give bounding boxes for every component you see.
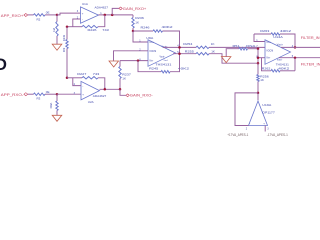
svg-text:U2A: U2A <box>88 100 94 104</box>
wire R262 right leg <box>294 58 296 71</box>
wire R237 top <box>119 61 121 67</box>
wire node E down chain <box>257 49 259 64</box>
off-page connector APP_RXO+ <box>24 14 28 17</box>
wire node F down to R5 <box>56 94 58 101</box>
wire to GAIN_RXO+ connector <box>112 8 119 15</box>
resistor R263 <box>271 33 280 35</box>
svg-text:-: - <box>82 17 83 21</box>
resistor R3 <box>34 93 46 96</box>
svg-text:GAIN_RXO+: GAIN_RXO+ <box>123 7 147 11</box>
svg-text:DNA: DNA <box>246 44 255 48</box>
wire R263 left leg to pin1 <box>254 34 265 42</box>
svg-text:1K: 1K <box>211 50 215 54</box>
wire to GAIN_RXO- connector <box>120 89 126 95</box>
resistor R245 <box>161 71 170 74</box>
wire R256 to U19A output node <box>257 82 259 93</box>
svg-text:APP_RXO-: APP_RXO- <box>1 93 24 97</box>
svg-text:R254: R254 <box>183 42 192 46</box>
off-page connector GAIN_RXO+ <box>119 7 122 10</box>
wire R4 to ground <box>56 36 58 44</box>
svg-text:OP1177: OP1177 <box>262 110 275 114</box>
wire R254 to U14A pin7 <box>209 46 265 48</box>
svg-text:743: 743 <box>93 72 100 76</box>
junction U2A output feedback <box>104 88 107 91</box>
svg-text:Vout-: Vout- <box>277 59 283 62</box>
wire R236 to node D <box>132 28 134 31</box>
resistor R5 DNA <box>56 101 58 111</box>
junction GAIN_RXO+ tap <box>111 14 114 17</box>
resistor R243 gain <box>66 40 68 49</box>
svg-text:40K2: 40K2 <box>162 25 174 29</box>
svg-text:0E: 0E <box>46 11 50 15</box>
svg-text:D: D <box>0 56 7 74</box>
wire U9A pin8 row <box>120 60 148 62</box>
wire U19A feedback loop <box>235 93 258 126</box>
wire R255 to lower node <box>209 54 258 64</box>
junction pin5 feedback <box>178 52 181 55</box>
fd-amp U9A <box>148 40 176 67</box>
wire ground stem to DNA row <box>226 49 239 57</box>
wire U2A output row <box>100 88 121 90</box>
wire R262 row <box>280 70 295 72</box>
wire R3 to node F <box>45 93 57 95</box>
wire U19A output to apex <box>257 93 259 100</box>
wire R5 to ground <box>56 111 58 116</box>
op-amp U2A <box>81 81 100 99</box>
wire node C to R227 <box>67 77 82 79</box>
svg-text:Vin+: Vin+ <box>266 42 271 44</box>
off-page connector APP_RXO- <box>24 93 28 96</box>
wire U14A pin5 output <box>279 57 320 59</box>
resistor R256 <box>257 75 259 82</box>
wire node B to gain resistor <box>66 27 68 40</box>
op-amp U19A <box>249 101 268 126</box>
svg-text:U1A: U1A <box>82 2 88 6</box>
svg-text:Vin+: Vin+ <box>149 42 154 44</box>
svg-text:3: 3 <box>267 128 269 131</box>
svg-text:U19A: U19A <box>262 103 271 107</box>
svg-text:1K: 1K <box>260 78 264 82</box>
svg-text:U14A: U14A <box>273 35 283 39</box>
resistor R254 <box>196 46 209 49</box>
svg-text:R227: R227 <box>77 72 86 76</box>
junction node B <box>66 25 69 28</box>
resistor R51 <box>239 48 248 51</box>
svg-text:Vout-: Vout- <box>160 56 166 59</box>
svg-text:U9A: U9A <box>146 36 153 40</box>
svg-text:R243: R243 <box>62 34 66 41</box>
op-amp U1A <box>81 7 99 23</box>
wire R263 right leg <box>280 34 295 47</box>
wire R51 to node E <box>248 48 259 50</box>
resistor R4 1M <box>56 22 58 37</box>
wire feedback down <box>98 15 105 27</box>
wire U9A pin4 row <box>163 46 196 48</box>
svg-text:40K2: 40K2 <box>278 66 290 70</box>
wire U14A pin4 output <box>281 46 320 48</box>
wire U19A pin3 stub <box>264 126 266 132</box>
svg-text:ADA4627: ADA4627 <box>95 5 109 9</box>
wire U1A output <box>99 14 134 16</box>
svg-text:DNA: DNA <box>49 102 53 108</box>
svg-text:ADA4627: ADA4627 <box>93 94 107 98</box>
svg-text:R3: R3 <box>37 97 41 101</box>
wire node A to U1A pin3 <box>57 13 81 15</box>
wire R2 to node A <box>45 14 57 16</box>
svg-text:2: 2 <box>246 128 248 131</box>
wire R245 left leg <box>138 61 161 72</box>
svg-text:R255: R255 <box>185 50 194 54</box>
junction node C <box>66 77 69 80</box>
wire R227 to output <box>98 78 105 90</box>
wire U14A pin8 stub <box>258 57 265 59</box>
fd-amp U14A <box>265 40 291 65</box>
svg-text:1K: 1K <box>211 42 215 46</box>
wire R263 row left <box>254 33 271 35</box>
svg-text:743: 743 <box>102 28 109 32</box>
ground top-left <box>52 44 62 50</box>
wire node D to R246 <box>133 30 153 32</box>
wire R245 right leg <box>170 54 180 72</box>
junction U1A output feedback tap <box>104 14 107 17</box>
svg-text:R2: R2 <box>37 17 41 21</box>
wire node A down to R4 <box>56 15 58 22</box>
ground bottom-left <box>52 115 62 121</box>
wire node F to U2A pin3 <box>57 93 81 95</box>
junction pin4 feedback <box>178 46 181 49</box>
wire U2A pin2 to node C <box>73 78 81 86</box>
svg-text:R262: R262 <box>262 66 271 70</box>
svg-text:APP_RXO+: APP_RXO+ <box>1 14 24 18</box>
junction node E <box>257 47 260 50</box>
resistor R2 <box>34 14 46 16</box>
wire connector to R2 <box>28 14 34 16</box>
wire R246 to leg <box>163 31 180 47</box>
resistor R236 <box>132 18 134 29</box>
svg-text:Vin-: Vin- <box>149 61 153 63</box>
junction U19A output node <box>257 92 260 95</box>
svg-text:-17VA_APES-1: -17VA_APES-1 <box>267 133 288 137</box>
svg-text:GAIN_RXO-: GAIN_RXO- <box>130 94 154 98</box>
svg-text:Vref: Vref <box>164 59 168 62</box>
wire R237 bottom <box>119 79 121 90</box>
svg-text:R246: R246 <box>141 26 150 30</box>
wire R226 to node B <box>67 26 82 28</box>
wire U9A pin2 to ground <box>114 51 149 61</box>
wire leg connector <box>179 47 181 53</box>
svg-text:-: - <box>82 84 83 88</box>
resistor R237 <box>119 67 121 79</box>
svg-text:909: 909 <box>62 47 66 52</box>
junction node F <box>56 93 59 96</box>
wire U9A pin5 row <box>173 53 196 55</box>
svg-text:Vin-: Vin- <box>266 57 270 59</box>
svg-text:R51: R51 <box>233 44 240 48</box>
resistor R255 <box>196 53 209 56</box>
svg-text:0E: 0E <box>46 90 50 94</box>
junction pin8 node <box>257 56 260 59</box>
svg-text:-: - <box>249 121 250 125</box>
resistor R226 <box>82 25 98 28</box>
junction node A <box>56 14 59 17</box>
svg-text:R263: R263 <box>260 29 269 33</box>
junction pin8 R245 tap <box>137 59 140 62</box>
ground mid-right <box>221 57 231 63</box>
resistor R227 <box>82 77 98 80</box>
svg-text:R245: R245 <box>149 66 158 70</box>
wire U1A out corner down <box>132 15 134 18</box>
svg-text:VOCM: VOCM <box>266 51 273 53</box>
off-page connector GAIN_RXO- <box>126 94 129 97</box>
junction U2A output node <box>119 88 122 91</box>
wire connector to R3 <box>28 93 34 95</box>
ground U9A vocm <box>109 61 119 67</box>
resistor R246 <box>153 30 163 32</box>
wire R262 left leg <box>262 58 272 71</box>
svg-text:1K: 1K <box>122 77 126 81</box>
junction pin5 feedback tap <box>294 56 297 59</box>
resistor R262 <box>271 70 280 73</box>
svg-text:+17VA_APES-1: +17VA_APES-1 <box>227 133 248 137</box>
junction lower input node <box>257 62 260 64</box>
svg-text:Vout+: Vout+ <box>277 44 284 47</box>
wire node to R256 <box>257 63 259 74</box>
junction node D <box>132 30 135 33</box>
junction R263 output tap <box>294 46 297 49</box>
svg-text:VOCM: VOCM <box>149 51 156 53</box>
svg-text:FILTER_IN-: FILTER_IN- <box>301 63 320 67</box>
svg-text:FILTER_IN+: FILTER_IN+ <box>301 36 320 40</box>
svg-text:R226: R226 <box>88 28 97 32</box>
svg-text:40K2: 40K2 <box>280 29 292 33</box>
wire gain resistor down to node C <box>66 49 68 78</box>
svg-text:1M: 1M <box>52 27 56 31</box>
wire node D to U9A pin1 <box>133 31 148 42</box>
svg-text:1K: 1K <box>135 20 139 24</box>
wire node B to U1A pin2 <box>73 19 81 27</box>
